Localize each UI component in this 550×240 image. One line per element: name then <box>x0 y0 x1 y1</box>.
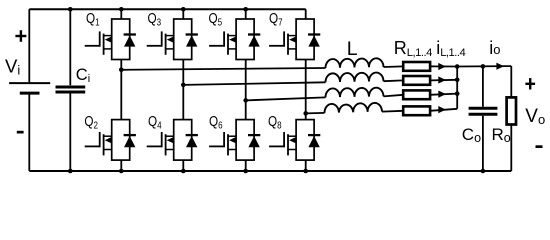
wire resistor RL3 to output bus <box>430 94 457 95</box>
current arrow iL4 <box>438 106 446 113</box>
svg-text:L: L <box>347 38 358 60</box>
wire inductor L4 to resistor <box>382 110 403 113</box>
wire inductor L3 to resistor <box>384 95 404 97</box>
wire resistor RL1 to output bus <box>430 65 457 67</box>
transistor Q6 <box>209 120 260 161</box>
current arrow iL1 <box>438 63 446 70</box>
svg-text:Ci: Ci <box>76 66 90 85</box>
wire load branch down <box>510 66 512 97</box>
node phase 4 <box>303 111 308 116</box>
current arrow iL3 <box>438 91 446 98</box>
svg-text:Q4: Q4 <box>148 113 162 131</box>
wire source lead Q3 to phase node <box>182 60 184 85</box>
wire source lead Q5 to phase node <box>245 60 247 101</box>
transistor Q3 <box>147 19 198 60</box>
wire drain lead Q8 <box>305 113 307 119</box>
label + (output polarity) <box>525 83 535 85</box>
wire drain lead Q4 <box>182 85 184 120</box>
transistor Q5 <box>209 19 260 60</box>
wire drain lead Q1 <box>120 9 122 19</box>
label + (input polarity) <box>15 35 26 37</box>
bottom return rail <box>29 170 511 172</box>
resistor Ro <box>507 97 516 124</box>
wire phase 1 to inductor <box>121 68 325 70</box>
svg-text:Q2: Q2 <box>84 113 98 131</box>
current arrow iL2 <box>438 76 446 83</box>
node Q5 drain junction <box>243 7 248 12</box>
wire drain lead Q3 <box>182 9 184 19</box>
svg-text:Vi: Vi <box>5 55 20 77</box>
wire drain lead Q7 <box>305 9 307 19</box>
transistor Q7 <box>269 19 320 60</box>
wire resistor RL4 to output bus <box>430 109 457 111</box>
label - (input polarity) <box>17 131 24 134</box>
node Ci bottom junction <box>68 169 73 174</box>
node Ci top junction <box>68 7 73 12</box>
node output bus junction 1 <box>455 64 460 69</box>
input voltage source Vi (battery) <box>9 9 50 171</box>
inductor L2 <box>325 73 383 83</box>
node Q4 source junction <box>181 169 186 174</box>
input capacitor Ci <box>56 9 86 171</box>
transistor Q8 <box>269 120 320 161</box>
svg-text:RL,1..4: RL,1..4 <box>394 38 432 59</box>
wire source lead Q7 to phase node <box>305 60 307 114</box>
top supply rail <box>29 8 305 10</box>
wire source lead Q6 to rail <box>245 160 247 171</box>
transistor Q4 <box>147 120 198 161</box>
wire phase 2 to inductor <box>183 82 325 85</box>
node Q2 source junction <box>119 169 124 174</box>
transistor Q2 <box>85 120 136 161</box>
wire output bus <box>456 67 458 109</box>
svg-text:Q1: Q1 <box>86 10 100 28</box>
wire output node to load <box>457 65 511 67</box>
svg-text:Q3: Q3 <box>148 10 162 28</box>
transistor Q1 <box>85 19 136 60</box>
wire inductor L2 to resistor <box>384 79 404 82</box>
wire Ro to bottom rail <box>510 125 512 172</box>
node Q1 drain junction <box>119 7 124 12</box>
node Co bottom junction <box>481 169 486 174</box>
node phase 1 <box>119 68 124 73</box>
inductor L1 <box>325 58 383 68</box>
node Co top junction <box>481 64 486 69</box>
node output bus junction 3 <box>455 91 460 96</box>
wire source lead Q2 to rail <box>120 160 122 171</box>
resistor RL4 <box>403 106 430 115</box>
svg-text:Q7: Q7 <box>269 10 283 28</box>
node Q6 source junction <box>243 169 248 174</box>
inductor L4 <box>324 103 382 113</box>
label - (output polarity) <box>536 145 543 148</box>
svg-text:Q6: Q6 <box>209 113 223 131</box>
svg-text:Vo: Vo <box>525 106 545 127</box>
svg-text:Q8: Q8 <box>268 113 282 131</box>
node Q8 source junction <box>303 169 308 174</box>
wire source lead Q1 to phase node <box>120 60 122 70</box>
wire drain lead Q6 <box>245 100 247 119</box>
svg-text:iL,1..4: iL,1..4 <box>436 38 465 59</box>
node Q3 drain junction <box>181 7 186 12</box>
current arrow io <box>496 63 504 70</box>
resistor RL3 <box>403 90 430 99</box>
wire phase 4 to inductor <box>306 112 325 115</box>
node phase 3 <box>243 98 248 103</box>
wire source lead Q4 to rail <box>182 160 184 171</box>
output capacitor Co <box>469 66 498 171</box>
svg-text:io: io <box>489 38 500 58</box>
resistor RL2 <box>403 76 430 85</box>
svg-text:Ro: Ro <box>492 125 511 145</box>
wire resistor RL2 to output bus <box>430 79 457 82</box>
node phase 2 <box>181 83 186 88</box>
wire inductor L1 to resistor <box>384 65 404 68</box>
resistor RL1 <box>403 62 430 71</box>
inductor L3 <box>325 88 383 98</box>
wire drain lead Q2 <box>120 70 122 120</box>
wire drain lead Q5 <box>245 9 247 19</box>
wire source lead Q8 to rail <box>305 160 307 171</box>
svg-text:Q5: Q5 <box>209 10 223 28</box>
svg-text:Co: Co <box>462 125 481 145</box>
node output bus junction 2 <box>455 78 460 83</box>
wire phase 3 to inductor <box>246 97 326 100</box>
